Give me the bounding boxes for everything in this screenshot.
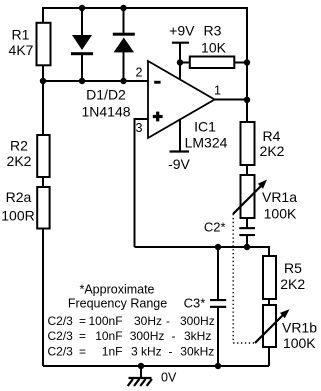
- svg-text:100K: 100K: [264, 205, 297, 221]
- svg-text:2: 2: [136, 66, 143, 80]
- svg-text:2K2: 2K2: [7, 153, 32, 169]
- svg-text:R4: R4: [263, 128, 281, 144]
- svg-text:VR1a: VR1a: [262, 189, 297, 205]
- svg-text:C2/3=10nF300Hz-3kHz: C2/3=10nF300Hz-3kHz: [48, 329, 212, 343]
- svg-text:-9V: -9V: [168, 156, 190, 172]
- svg-text:100R: 100R: [1, 208, 34, 224]
- svg-text:3: 3: [136, 121, 143, 135]
- svg-text:R5: R5: [284, 260, 302, 276]
- svg-text:LM324: LM324: [185, 135, 228, 151]
- svg-text:10K: 10K: [201, 40, 227, 56]
- svg-text:+9V: +9V: [169, 23, 195, 39]
- svg-text:C3*: C3*: [184, 296, 206, 311]
- svg-text:2K2: 2K2: [280, 276, 305, 292]
- svg-text:R2: R2: [10, 138, 28, 154]
- svg-text:C2/3=1nF3 kHz-30kHz: C2/3=1nF3 kHz-30kHz: [48, 345, 215, 359]
- svg-text:Frequency Range: Frequency Range: [68, 297, 167, 311]
- svg-text:*Approximate: *Approximate: [79, 283, 154, 297]
- svg-text:VR1b: VR1b: [282, 319, 317, 335]
- svg-text:R2a: R2a: [6, 189, 32, 205]
- svg-text:4K7: 4K7: [9, 42, 34, 58]
- svg-text:1: 1: [214, 84, 221, 98]
- svg-text:C2/3=100nF30Hz-300Hz: C2/3=100nF30Hz-300Hz: [48, 314, 215, 328]
- svg-text:R1: R1: [12, 27, 30, 43]
- svg-text:D1/D2: D1/D2: [86, 87, 126, 103]
- svg-text:1N4148: 1N4148: [81, 104, 130, 120]
- svg-text:R3: R3: [204, 23, 222, 39]
- svg-text:2K2: 2K2: [260, 143, 285, 159]
- svg-text:100K: 100K: [283, 335, 316, 351]
- svg-text:C2*: C2*: [204, 220, 226, 235]
- svg-text:0V: 0V: [161, 371, 177, 385]
- svg-text:IC1: IC1: [194, 119, 216, 135]
